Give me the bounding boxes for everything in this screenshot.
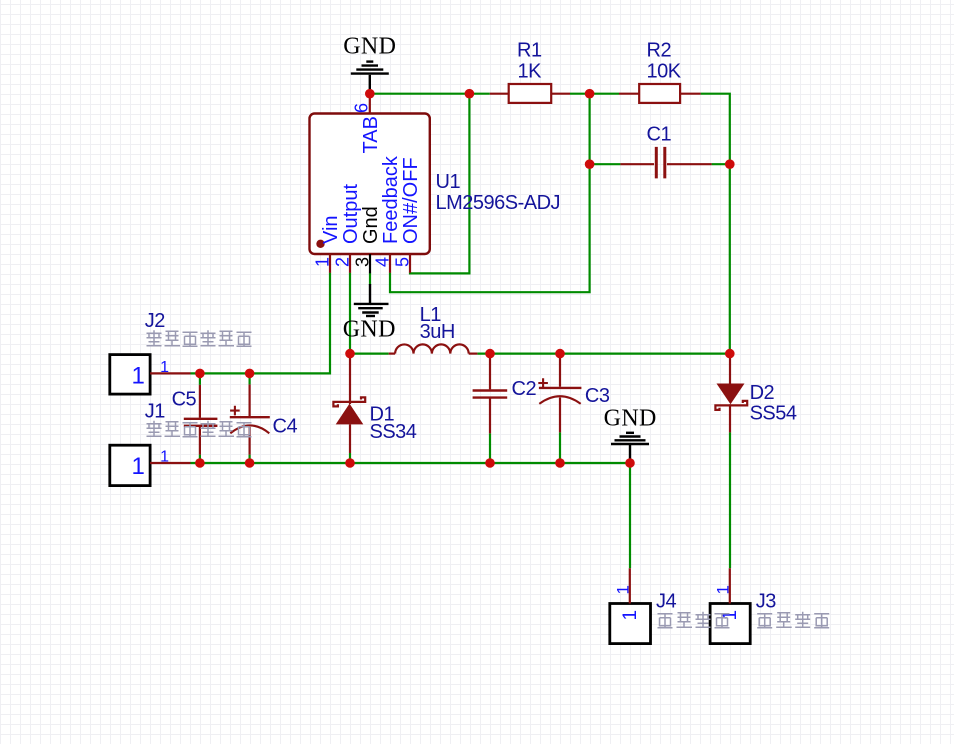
svg-text:J4: J4 [656, 591, 677, 613]
node junction [245, 369, 255, 379]
svg-text:2: 2 [333, 257, 353, 267]
capacitor C4 (polarized) [230, 373, 298, 454]
svg-text:SS34: SS34 [370, 421, 417, 443]
node junction [465, 89, 475, 99]
pin 4 stub [389, 254, 391, 273]
wire [729, 432, 731, 568]
svg-text:4: 4 [373, 257, 393, 267]
node junction [725, 159, 735, 169]
svg-text:U1: U1 [436, 171, 461, 193]
node junction [485, 349, 495, 359]
resistor R1 [490, 40, 570, 103]
pin 3 stub (black GND pin) [369, 254, 371, 273]
svg-text:C1: C1 [647, 124, 672, 146]
svg-text:3uH: 3uH [420, 321, 455, 343]
wire [370, 93, 490, 95]
svg-text:1: 1 [160, 359, 169, 376]
svg-text:5: 5 [393, 257, 413, 267]
wire [410, 94, 469, 274]
capacitor C2 [473, 354, 537, 434]
svg-text:1: 1 [620, 610, 641, 621]
node junction [195, 369, 205, 379]
svg-text:GND: GND [343, 317, 396, 343]
diode D2 SS54 (schottky) [715, 354, 797, 433]
svg-text:R1: R1 [517, 40, 542, 62]
wire [191, 462, 631, 464]
svg-text:C4: C4 [273, 416, 298, 438]
ground GND middle (pin 3 of U1) [343, 284, 396, 343]
pin 6 stub (TAB) [369, 94, 371, 114]
svg-text:Vin: Vin [320, 215, 342, 244]
node junction [725, 349, 735, 359]
svg-text:6: 6 [351, 103, 371, 113]
svg-text:J3: J3 [756, 591, 777, 613]
svg-text:3: 3 [353, 257, 373, 267]
svg-text:GND: GND [604, 406, 657, 432]
diode D1 SS34 (schottky) [333, 354, 416, 453]
connector J4 [610, 568, 677, 643]
wire [349, 273, 351, 354]
pin 2 stub [349, 254, 351, 273]
wire [369, 273, 371, 285]
svg-text:C5: C5 [172, 389, 197, 411]
svg-text:Feedback: Feedback [380, 155, 402, 244]
svg-text:ON#/OFF: ON#/OFF [400, 157, 422, 244]
wire [199, 455, 201, 463]
wire [590, 163, 621, 165]
node junction [585, 159, 595, 169]
label 电瓶焊盘 (J4) [658, 612, 730, 628]
wire [629, 463, 631, 568]
node junction [345, 349, 355, 359]
wire [249, 455, 251, 463]
node junction [365, 89, 375, 99]
svg-text:1: 1 [160, 448, 169, 465]
wire [489, 433, 491, 463]
node junction [195, 458, 205, 468]
ground GND top [343, 34, 396, 90]
svg-text:C3: C3 [585, 385, 610, 407]
capacitor C1 [620, 124, 711, 179]
svg-text:R2: R2 [647, 40, 672, 62]
svg-text:J1: J1 [145, 401, 166, 423]
wire [701, 94, 730, 354]
capacitor C5 [172, 373, 218, 454]
resistor R2 [619, 40, 701, 103]
ground GND bottom [604, 406, 657, 464]
wire [390, 94, 590, 293]
node junction [345, 458, 355, 468]
svg-text:1: 1 [613, 585, 632, 594]
svg-text:1: 1 [131, 362, 144, 389]
wire [350, 353, 389, 355]
svg-text:C2: C2 [512, 378, 537, 400]
pin 5 stub [409, 254, 411, 273]
svg-text:1: 1 [713, 585, 732, 594]
label 太阳能板焊盘 (J2) [147, 330, 252, 346]
wire [712, 163, 730, 165]
wire [570, 93, 619, 95]
IC U1 LM2596S-ADJ [310, 114, 561, 255]
svg-text:D2: D2 [750, 382, 775, 404]
wire [191, 273, 331, 374]
svg-text:SS54: SS54 [750, 403, 797, 425]
svg-text:1K: 1K [518, 61, 543, 83]
connector J2 [110, 310, 191, 394]
wire [559, 432, 561, 463]
inductor L1 [389, 304, 478, 354]
connector J1 [110, 401, 191, 486]
node junction [245, 458, 255, 468]
node junction [555, 458, 565, 468]
svg-text:Gnd: Gnd [360, 206, 382, 244]
svg-text:1: 1 [131, 453, 144, 480]
wire [349, 453, 351, 463]
connector J3 [710, 568, 776, 643]
label 太阳能板焊盘 (J1) [147, 421, 252, 437]
node junction [485, 458, 495, 468]
svg-text:J2: J2 [145, 310, 166, 332]
node junction [555, 349, 565, 359]
svg-text:1: 1 [313, 257, 333, 267]
svg-text:LM2596S-ADJ: LM2596S-ADJ [436, 192, 561, 214]
svg-text:1: 1 [720, 610, 741, 621]
wire [477, 353, 729, 355]
svg-text:Output: Output [340, 184, 362, 244]
svg-text:10K: 10K [647, 61, 682, 83]
pin 1 stub [329, 254, 331, 273]
node junction [585, 89, 595, 99]
svg-text:GND: GND [343, 34, 396, 60]
label 电瓶焊盘 (J3) [757, 612, 829, 628]
node junction [625, 458, 635, 468]
svg-text:TAB: TAB [360, 116, 382, 153]
capacitor C3 (polarized) [538, 354, 610, 433]
